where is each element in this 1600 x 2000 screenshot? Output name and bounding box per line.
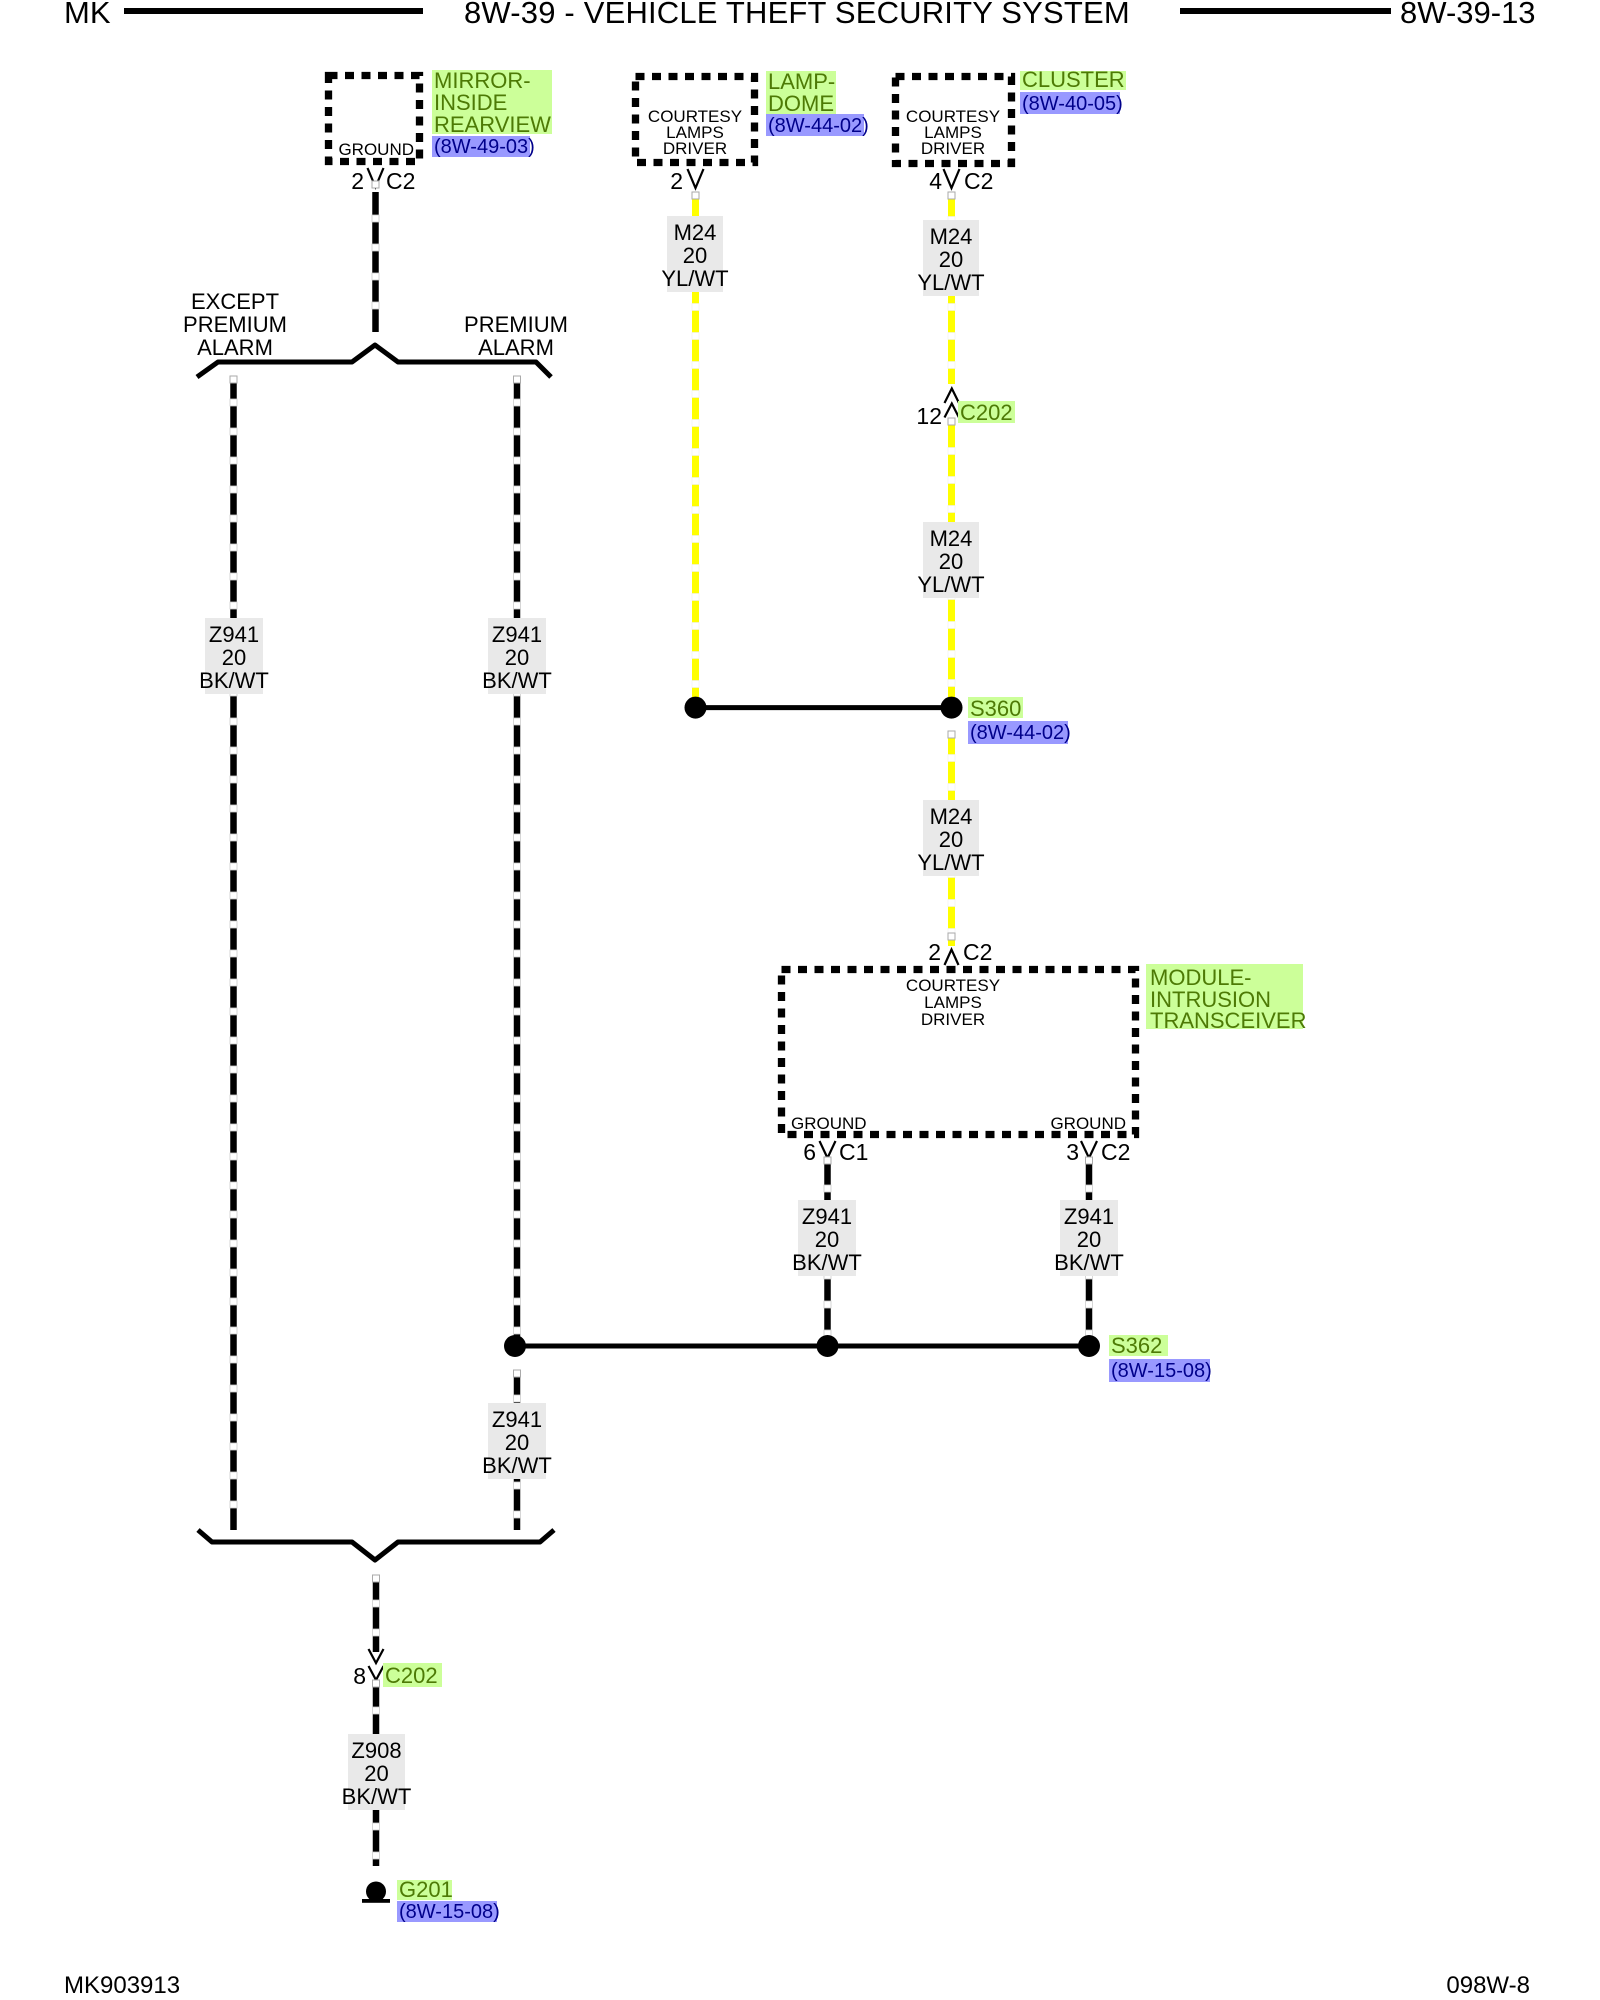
svg-text:C1: C1 — [839, 1139, 868, 1165]
svg-text:C2: C2 — [1101, 1139, 1130, 1165]
svg-text:DRIVER: DRIVER — [663, 139, 727, 158]
svg-text:DRIVER: DRIVER — [921, 139, 985, 158]
svg-text:20: 20 — [505, 645, 529, 670]
svg-text:(8W-44-02): (8W-44-02) — [970, 722, 1071, 744]
svg-text:Z941: Z941 — [802, 1204, 852, 1229]
svg-text:4: 4 — [929, 168, 942, 194]
svg-text:S360: S360 — [970, 696, 1021, 721]
svg-text:M24: M24 — [930, 526, 973, 551]
svg-text:BK/WT: BK/WT — [482, 668, 552, 693]
svg-text:20: 20 — [939, 247, 963, 272]
svg-text:(8W-49-03): (8W-49-03) — [434, 136, 535, 158]
svg-text:M24: M24 — [674, 220, 717, 245]
svg-text:20: 20 — [364, 1761, 388, 1786]
svg-text:20: 20 — [939, 549, 963, 574]
svg-text:C2: C2 — [386, 168, 415, 194]
svg-text:2: 2 — [670, 168, 683, 194]
svg-text:PREMIUM: PREMIUM — [464, 312, 568, 337]
svg-text:Z908: Z908 — [351, 1738, 401, 1763]
svg-text:CLUSTER: CLUSTER — [1022, 67, 1125, 92]
svg-text:C202: C202 — [385, 1663, 438, 1688]
svg-text:YL/WT: YL/WT — [917, 270, 984, 295]
svg-text:20: 20 — [222, 645, 246, 670]
svg-text:3: 3 — [1066, 1139, 1079, 1165]
svg-text:REARVIEW: REARVIEW — [434, 112, 551, 137]
svg-text:(8W-15-08): (8W-15-08) — [399, 1901, 500, 1923]
svg-text:MK903913: MK903913 — [64, 1972, 180, 1999]
svg-text:(8W-44-02): (8W-44-02) — [768, 115, 869, 137]
svg-text:BK/WT: BK/WT — [792, 1250, 862, 1275]
svg-text:M24: M24 — [930, 224, 973, 249]
svg-text:Z941: Z941 — [492, 1407, 542, 1432]
svg-text:BK/WT: BK/WT — [199, 668, 269, 693]
svg-text:20: 20 — [683, 243, 707, 268]
svg-text:BK/WT: BK/WT — [342, 1784, 412, 1809]
svg-text:8W-39 - VEHICLE THEFT SECURITY: 8W-39 - VEHICLE THEFT SECURITY SYSTEM — [464, 0, 1130, 30]
svg-text:M24: M24 — [930, 804, 973, 829]
svg-text:YL/WT: YL/WT — [661, 266, 728, 291]
svg-text:ALARM: ALARM — [478, 335, 554, 360]
svg-text:C2: C2 — [964, 168, 993, 194]
svg-text:12: 12 — [916, 403, 942, 429]
svg-text:GROUND: GROUND — [1050, 1114, 1126, 1133]
svg-text:Z941: Z941 — [209, 622, 259, 647]
svg-text:YL/WT: YL/WT — [917, 850, 984, 875]
svg-text:8: 8 — [353, 1663, 366, 1689]
svg-text:EXCEPT: EXCEPT — [191, 289, 279, 314]
svg-text:BK/WT: BK/WT — [1054, 1250, 1124, 1275]
svg-text:BK/WT: BK/WT — [482, 1453, 552, 1478]
svg-text:(8W-40-05): (8W-40-05) — [1022, 93, 1123, 115]
svg-text:8W-39-13: 8W-39-13 — [1400, 0, 1536, 30]
svg-text:20: 20 — [505, 1430, 529, 1455]
svg-text:PREMIUM: PREMIUM — [183, 312, 287, 337]
svg-text:098W-8: 098W-8 — [1446, 1972, 1530, 1999]
svg-text:ALARM: ALARM — [197, 335, 273, 360]
svg-text:(8W-15-08): (8W-15-08) — [1111, 1360, 1212, 1382]
svg-text:G201: G201 — [399, 1877, 453, 1902]
svg-text:6: 6 — [803, 1139, 816, 1165]
svg-text:GROUND: GROUND — [338, 140, 414, 159]
svg-text:Z941: Z941 — [1064, 1204, 1114, 1229]
svg-text:GROUND: GROUND — [791, 1114, 867, 1133]
svg-text:20: 20 — [815, 1227, 839, 1252]
svg-text:C2: C2 — [963, 939, 992, 965]
svg-text:20: 20 — [1077, 1227, 1101, 1252]
svg-text:C202: C202 — [960, 400, 1013, 425]
svg-text:20: 20 — [939, 827, 963, 852]
svg-text:TRANSCEIVER: TRANSCEIVER — [1150, 1008, 1306, 1033]
svg-text:DRIVER: DRIVER — [921, 1010, 985, 1029]
svg-text:2: 2 — [928, 939, 941, 965]
svg-text:2: 2 — [351, 168, 364, 194]
svg-text:Z941: Z941 — [492, 622, 542, 647]
svg-text:MK: MK — [64, 0, 111, 30]
svg-text:S362: S362 — [1111, 1333, 1162, 1358]
svg-text:DOME: DOME — [768, 91, 834, 116]
svg-text:YL/WT: YL/WT — [917, 572, 984, 597]
